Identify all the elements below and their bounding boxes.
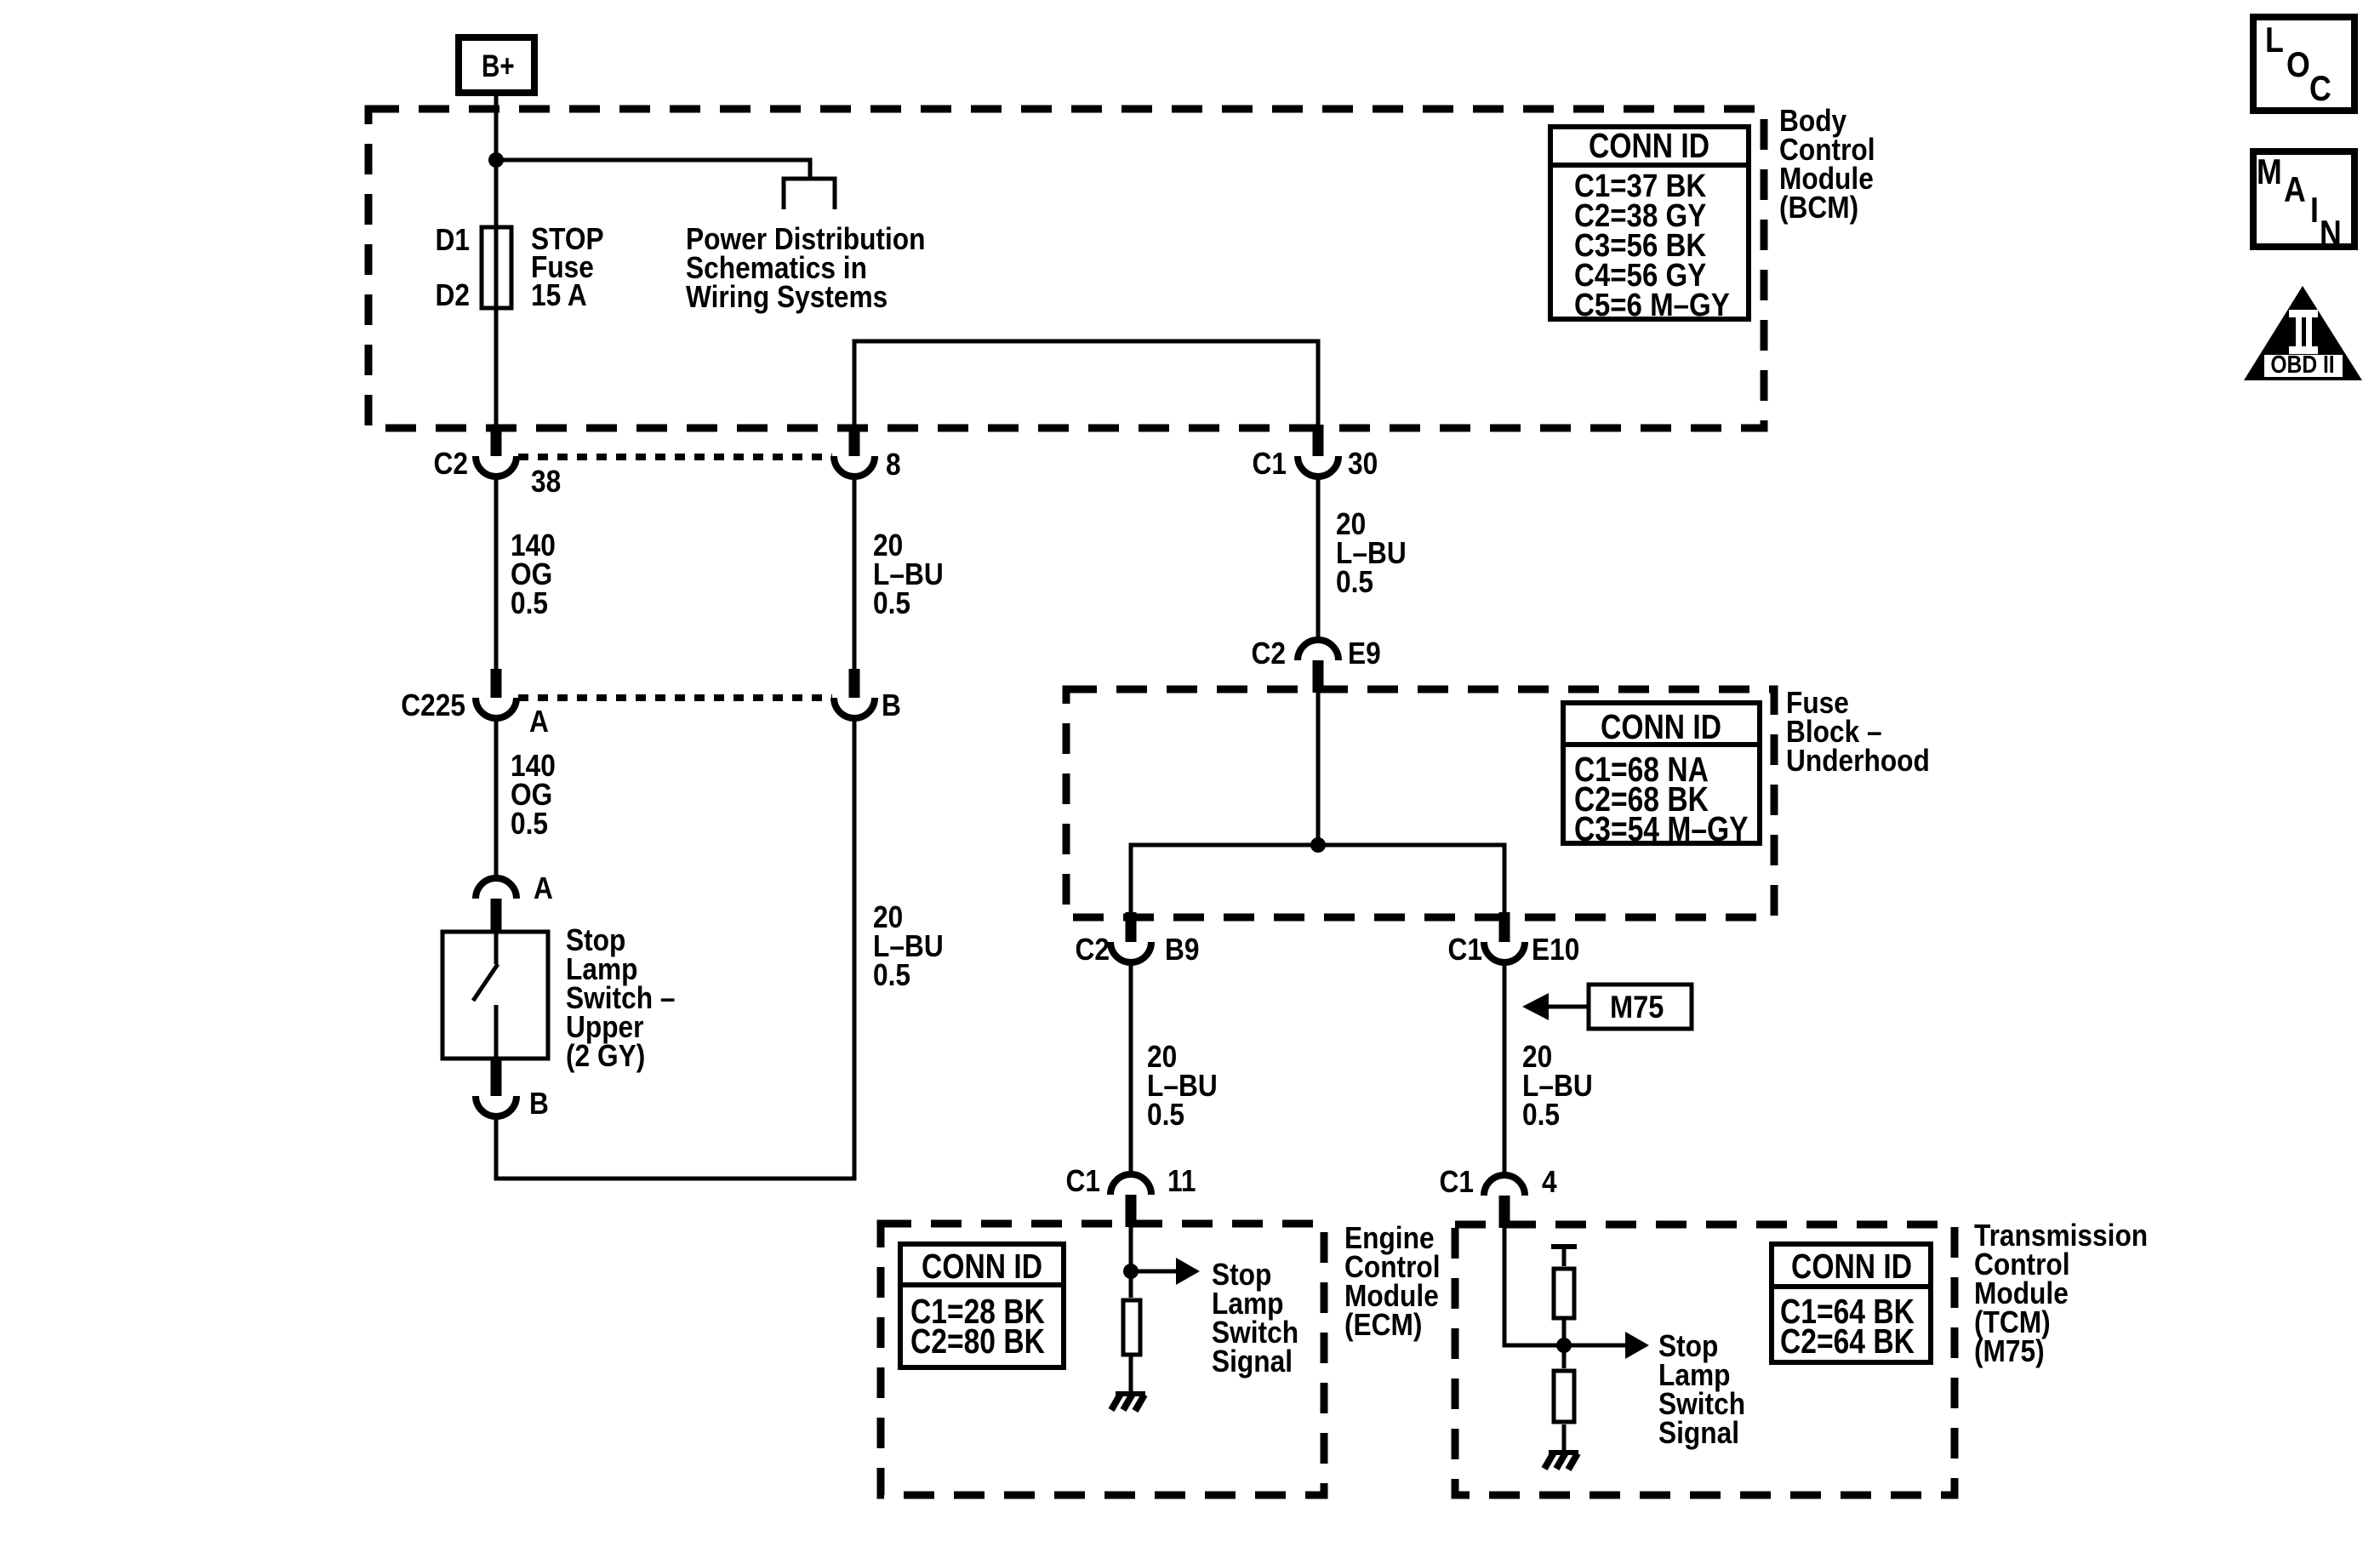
BCM CONN ID table box <box>1550 127 1749 319</box>
wire label 20 L-BU 0.5 <box>873 528 944 620</box>
wire label 140 OG 0.5 <box>511 528 556 620</box>
wire 20 L-BU from 8 to C225-B <box>853 477 857 670</box>
connector tie line C225 A to B <box>518 694 832 701</box>
svg-text:0.5: 0.5 <box>511 807 548 841</box>
svg-text:0.5: 0.5 <box>1522 1098 1560 1132</box>
svg-text:0.5: 0.5 <box>1147 1098 1184 1132</box>
svg-text:(ECM): (ECM) <box>1344 1308 1422 1342</box>
label Stop Lamp Switch Signal <box>1658 1329 1745 1450</box>
legend LOC box <box>2253 17 2354 111</box>
svg-text:C2: C2 <box>1252 636 1286 671</box>
resistor ECM <box>1123 1300 1140 1355</box>
svg-text:D1: D1 <box>436 223 470 257</box>
label C1 <box>1448 933 1482 967</box>
TCM module dashed box <box>1455 1224 1955 1495</box>
svg-text:Wiring Systems: Wiring Systems <box>686 280 888 314</box>
label STOP Fuse 15 A <box>531 222 604 312</box>
label Stop Lamp Switch Signal <box>1212 1258 1298 1378</box>
label C225 <box>401 688 465 722</box>
connector B at switch <box>476 1058 517 1116</box>
svg-text:B9: B9 <box>1165 933 1199 967</box>
module name Engine Control Module (ECM) <box>1344 1221 1441 1342</box>
svg-text:C2=80 BK: C2=80 BK <box>910 1321 1045 1361</box>
label B <box>529 1087 549 1121</box>
junction dot ECM <box>1123 1264 1139 1279</box>
svg-text:15 A: 15 A <box>531 278 587 312</box>
label C1 <box>1253 447 1287 481</box>
svg-text:4: 4 <box>1542 1165 1557 1199</box>
BCM CONN ID table title <box>1589 126 1709 165</box>
svg-text:D2: D2 <box>436 278 470 312</box>
resistor TCM upper <box>1554 1269 1574 1318</box>
label C1 <box>1066 1164 1100 1198</box>
svg-text:0.5: 0.5 <box>1336 565 1373 599</box>
module name Fuse Block - Underhood <box>1786 686 1930 778</box>
svg-text:CONN ID: CONN ID <box>922 1247 1042 1286</box>
BCM CONN ID rows <box>1574 168 1730 323</box>
svg-text:Signal: Signal <box>1212 1344 1293 1378</box>
legend MAIN box <box>2253 151 2354 254</box>
label D2 <box>436 278 470 312</box>
svg-text:O: O <box>2286 45 2310 84</box>
svg-text:M: M <box>2257 152 2282 191</box>
wire pin 4 to TCM junction <box>1504 1228 1562 1345</box>
wire 140 OG from C2-38 to C225-A <box>494 477 499 670</box>
connector C2 pin E9 <box>1298 640 1338 693</box>
wire terminal to upper resistor <box>1562 1247 1567 1266</box>
svg-text:C2=64 BK: C2=64 BK <box>1780 1321 1915 1361</box>
wire 20 L-BU E10 to TCM pin 4 <box>1503 962 1507 1176</box>
label C2 <box>1076 933 1110 967</box>
pull-up terminal bar <box>1551 1244 1577 1249</box>
label C1 <box>1440 1165 1474 1199</box>
connector C1 pin 11 <box>1110 1174 1151 1227</box>
svg-text:E10: E10 <box>1532 933 1579 967</box>
svg-text:I: I <box>2310 191 2319 230</box>
svg-text:CONN ID: CONN ID <box>1589 126 1709 165</box>
svg-text:0.5: 0.5 <box>873 586 910 620</box>
switch contacts <box>473 928 498 1059</box>
svg-text:0.5: 0.5 <box>873 958 910 992</box>
connector tie line C2 to 8 <box>518 454 832 460</box>
svg-text:C1: C1 <box>1066 1164 1100 1198</box>
ECM CONN ID table box <box>900 1244 1064 1367</box>
wire between resistors <box>1562 1320 1567 1368</box>
connector pin 8 <box>834 425 875 477</box>
stop lamp switch box <box>442 932 548 1059</box>
svg-text:38: 38 <box>531 465 561 499</box>
svg-text:Signal: Signal <box>1658 1416 1739 1450</box>
label A <box>529 705 549 739</box>
ECM CONN ID rows <box>910 1292 1045 1361</box>
fuse block underhood dashed box <box>1066 689 1774 917</box>
fuse block internal bus wire <box>1131 845 1504 915</box>
label 38 <box>531 465 561 499</box>
connector C2 pin 38 <box>476 425 517 477</box>
svg-text:0.5: 0.5 <box>511 586 548 620</box>
label Stop Lamp Switch - Upper (2 GY) <box>566 923 675 1073</box>
fuse block CONN ID rows <box>1574 750 1749 848</box>
wire pin 11 to ECM resistor <box>1129 1227 1133 1298</box>
wire 20 L-BU from C1-30 to E9 <box>1316 477 1321 641</box>
connector C225 pin B <box>834 669 875 718</box>
wire label 20 L-BU 0.5 <box>1147 1040 1218 1132</box>
svg-text:A: A <box>2284 170 2306 209</box>
M75 reference box <box>1589 985 1692 1029</box>
label B <box>882 688 901 722</box>
label 4 <box>1542 1165 1557 1199</box>
splice junction in fuse block <box>1310 837 1326 853</box>
svg-text:CONN ID: CONN ID <box>1791 1247 1912 1286</box>
junction dot TCM <box>1556 1338 1572 1353</box>
svg-text:C2: C2 <box>1076 933 1110 967</box>
wire label 20 L-BU 0.5 <box>1522 1040 1593 1132</box>
battery voltage terminal B+ <box>459 37 534 93</box>
label E9 <box>1348 636 1381 671</box>
TCM CONN ID table box <box>1772 1244 1931 1362</box>
resistor TCM lower <box>1554 1371 1574 1422</box>
svg-text:C: C <box>2309 69 2331 108</box>
note Power Distribution Schematics in Wiring Systems <box>686 222 925 314</box>
svg-text:(2 GY): (2 GY) <box>566 1039 645 1073</box>
wire junction to power distribution tap <box>496 160 810 180</box>
svg-text:M75: M75 <box>1610 990 1664 1025</box>
ECM CONN ID table title <box>922 1247 1042 1286</box>
TCM CONN ID rows <box>1780 1292 1915 1361</box>
svg-text:L: L <box>2265 20 2284 60</box>
svg-text:E9: E9 <box>1348 636 1381 671</box>
svg-text:A: A <box>534 871 553 905</box>
wire B+ feed down to fuse and connector C2 <box>494 96 499 426</box>
connector C1 pin 30 <box>1298 425 1338 477</box>
svg-text:B: B <box>529 1087 549 1121</box>
connector C2 pin B9 <box>1110 912 1151 962</box>
wire label 20 L-BU 0.5 <box>1336 507 1407 599</box>
label C2 <box>434 447 468 481</box>
fuse block CONN ID table title <box>1601 707 1721 746</box>
connector A at switch <box>476 878 517 932</box>
OBD II triangle symbol <box>2244 286 2362 380</box>
label A <box>534 871 553 905</box>
signal arrow ECM <box>1131 1258 1200 1285</box>
ground TCM <box>1544 1453 1578 1470</box>
svg-text:Underhood: Underhood <box>1786 744 1930 778</box>
off-page connector to Power Distribution <box>784 179 835 209</box>
TCM CONN ID table title <box>1791 1247 1912 1286</box>
svg-text:11: 11 <box>1167 1164 1196 1198</box>
label 30 <box>1348 447 1378 481</box>
svg-text:C3=54 M–GY: C3=54 M–GY <box>1574 809 1749 848</box>
label 8 <box>886 448 901 482</box>
signal arrow TCM <box>1564 1332 1649 1359</box>
BCM internal bus wire pin8 to pin30 <box>854 341 1318 426</box>
svg-text:C1: C1 <box>1440 1165 1474 1199</box>
label B9 <box>1165 933 1199 967</box>
arrow from M75 to E10 wire <box>1522 993 1587 1020</box>
label C2 <box>1252 636 1286 671</box>
svg-text:N: N <box>2320 214 2342 253</box>
svg-text:C225: C225 <box>401 688 465 722</box>
svg-text:OBD II: OBD II <box>2270 351 2334 378</box>
wire lower resistor to ground <box>1562 1424 1567 1453</box>
wire E9 into fuse block <box>1316 693 1321 845</box>
svg-text:C1: C1 <box>1253 447 1287 481</box>
wire switch B up to C225-B <box>496 718 854 1179</box>
module name Transmission Control Module (TCM) (M75) <box>1974 1219 2148 1368</box>
connector C1 pin 4 <box>1484 1175 1525 1228</box>
label E10 <box>1532 933 1579 967</box>
fuse STOP 15A <box>482 227 511 308</box>
wire 20 L-BU B9 to ECM pin 11 <box>1129 962 1133 1175</box>
label 11 <box>1167 1164 1196 1198</box>
wire 140 OG from C225-A to switch <box>494 718 499 879</box>
connector C225 pin A <box>476 669 517 718</box>
fuse block CONN ID table box <box>1563 703 1760 843</box>
svg-text:C1: C1 <box>1448 933 1482 967</box>
label D1 <box>436 223 470 257</box>
ECM module dashed box <box>881 1224 1324 1495</box>
ground ECM <box>1111 1394 1145 1411</box>
svg-text:(M75): (M75) <box>1974 1334 2045 1368</box>
svg-text:C5=6 M–GY: C5=6 M–GY <box>1574 287 1730 323</box>
svg-text:B: B <box>882 688 901 722</box>
svg-text:(BCM): (BCM) <box>1779 191 1858 225</box>
wire label 140 OG 0.5 <box>511 749 556 841</box>
BCM module dashed box <box>368 109 1764 428</box>
module name Body Control Module (BCM) <box>1779 104 1875 225</box>
wire ECM resistor to ground <box>1129 1356 1133 1394</box>
svg-text:CONN ID: CONN ID <box>1601 707 1721 746</box>
connector C1 pin E10 <box>1484 912 1525 962</box>
splice junction on B+ feed <box>488 152 504 168</box>
svg-text:A: A <box>529 705 549 739</box>
svg-text:B+: B+ <box>482 49 515 84</box>
svg-text:8: 8 <box>886 448 901 482</box>
svg-text:C2: C2 <box>434 447 468 481</box>
wire label 20 L-BU 0.5 <box>873 900 944 992</box>
svg-text:30: 30 <box>1348 447 1378 481</box>
